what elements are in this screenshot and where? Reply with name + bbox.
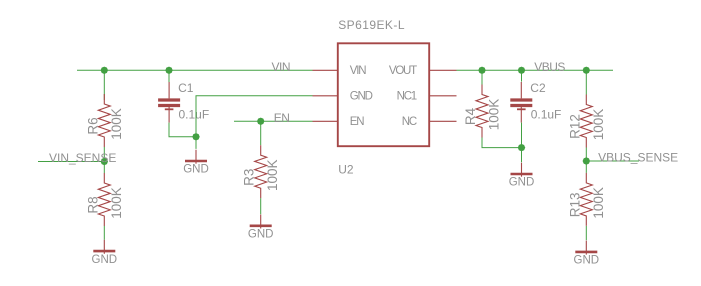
svg-text:EN: EN bbox=[274, 111, 290, 125]
svg-text:0.1uF: 0.1uF bbox=[531, 107, 562, 121]
svg-text:100K: 100K bbox=[109, 108, 124, 140]
pin GND stub bbox=[313, 95, 338, 97]
svg-text:GND: GND bbox=[574, 255, 600, 267]
junction node VIN_SENSE bbox=[101, 158, 108, 165]
capacitor C1 symbol bbox=[158, 82, 180, 123]
svg-text:100K: 100K bbox=[591, 109, 606, 141]
svg-text:VBUS_SENSE: VBUS_SENSE bbox=[598, 150, 678, 164]
ground GND below R13 bbox=[574, 241, 600, 267]
resistor R4 symbol bbox=[476, 85, 488, 138]
svg-text:100K: 100K bbox=[487, 99, 502, 131]
pin NC1 stub bbox=[429, 95, 456, 97]
svg-text:VBUS: VBUS bbox=[534, 60, 565, 74]
svg-text:100K: 100K bbox=[109, 187, 124, 219]
junction at R4 top bbox=[478, 67, 485, 74]
wire VIN net horizontal bbox=[77, 69, 313, 71]
resistor R13 symbol bbox=[580, 173, 592, 226]
wire R12 bottom to VBUS_SENSE node bbox=[585, 148, 587, 162]
junction at C1 top bbox=[165, 67, 172, 74]
wire EN net bbox=[234, 120, 313, 122]
pin VIN stub bbox=[313, 69, 338, 71]
svg-text:R12: R12 bbox=[567, 114, 582, 139]
capacitor C2 symbol bbox=[510, 82, 532, 123]
svg-text:R4: R4 bbox=[463, 107, 478, 125]
wire GND net from IC GND pin bbox=[196, 96, 313, 149]
svg-text:VIN: VIN bbox=[272, 60, 291, 74]
junction at R6 top bbox=[101, 67, 108, 74]
svg-text:GND: GND bbox=[92, 254, 118, 266]
wire C2 bottom bbox=[521, 123, 523, 148]
resistor R8 symbol bbox=[98, 173, 110, 226]
ground GND below C1 net bbox=[183, 150, 209, 176]
ground GND below R8 bbox=[92, 240, 118, 266]
junction C2 bottom node bbox=[518, 144, 525, 151]
wire R4 top bbox=[481, 70, 483, 84]
svg-text:R6: R6 bbox=[85, 117, 100, 134]
wire R3 top bbox=[260, 121, 262, 145]
junction at R12 top bbox=[583, 67, 590, 74]
wire R12 top bbox=[585, 70, 587, 94]
svg-text:U2: U2 bbox=[338, 162, 354, 176]
svg-text:100K: 100K bbox=[591, 187, 606, 219]
svg-text:VIN: VIN bbox=[350, 65, 366, 77]
wire C2 node to ground bbox=[521, 148, 523, 163]
svg-text:VOUT: VOUT bbox=[389, 65, 417, 77]
svg-text:VIN_SENSE: VIN_SENSE bbox=[49, 151, 116, 165]
svg-text:GND: GND bbox=[248, 229, 274, 241]
svg-text:R8: R8 bbox=[85, 196, 100, 213]
svg-text:GND: GND bbox=[183, 164, 209, 176]
junction GND net bbox=[192, 133, 199, 140]
svg-text:C2: C2 bbox=[530, 81, 546, 95]
svg-text:SP619EK-L: SP619EK-L bbox=[338, 18, 405, 32]
wire R6 top bbox=[103, 70, 105, 100]
resistor R12 symbol bbox=[580, 95, 592, 148]
wire R4 bottom to C2 bottom bbox=[482, 138, 522, 148]
svg-text:0.1uF: 0.1uF bbox=[179, 107, 210, 121]
svg-text:R3: R3 bbox=[242, 169, 257, 186]
pin NC stub bbox=[429, 120, 456, 122]
pin VOUT stub bbox=[429, 69, 456, 71]
ground GND below C2 bbox=[509, 163, 535, 189]
svg-text:NC: NC bbox=[402, 116, 417, 128]
wire C2 top bbox=[521, 70, 523, 81]
svg-text:GND: GND bbox=[509, 177, 535, 189]
svg-text:C1: C1 bbox=[178, 81, 194, 95]
wire R6 bottom to VIN_SENSE node bbox=[103, 147, 105, 162]
pin EN stub bbox=[313, 120, 338, 122]
wire R8 bottom to ground bbox=[103, 226, 105, 240]
svg-text:R13: R13 bbox=[567, 193, 582, 218]
wire VBUS_SENSE stub bbox=[586, 160, 639, 162]
resistor R3 symbol bbox=[255, 145, 267, 198]
resistor R6 symbol bbox=[98, 94, 110, 147]
svg-text:NC1: NC1 bbox=[397, 91, 417, 103]
wire R3 bottom to ground bbox=[260, 198, 262, 214]
ground GND below R3 bbox=[248, 215, 274, 241]
junction at C2 top bbox=[518, 67, 525, 74]
svg-text:EN: EN bbox=[350, 116, 364, 128]
svg-text:100K: 100K bbox=[265, 159, 280, 191]
wire VBUS net horizontal bbox=[457, 69, 614, 71]
wire C1 top bbox=[168, 70, 170, 82]
svg-text:GND: GND bbox=[350, 91, 373, 103]
junction at R3 top bbox=[257, 118, 264, 125]
wire R8 top bbox=[103, 162, 105, 174]
wire VIN_SENSE stub bbox=[38, 161, 104, 163]
junction node VBUS_SENSE bbox=[583, 157, 590, 164]
wire C1 bottom to GND net bbox=[169, 123, 196, 137]
wire R13 top bbox=[585, 161, 587, 173]
op-amp U2 body SP619EK-L bbox=[338, 43, 429, 146]
wire R13 bottom to ground bbox=[585, 226, 587, 240]
